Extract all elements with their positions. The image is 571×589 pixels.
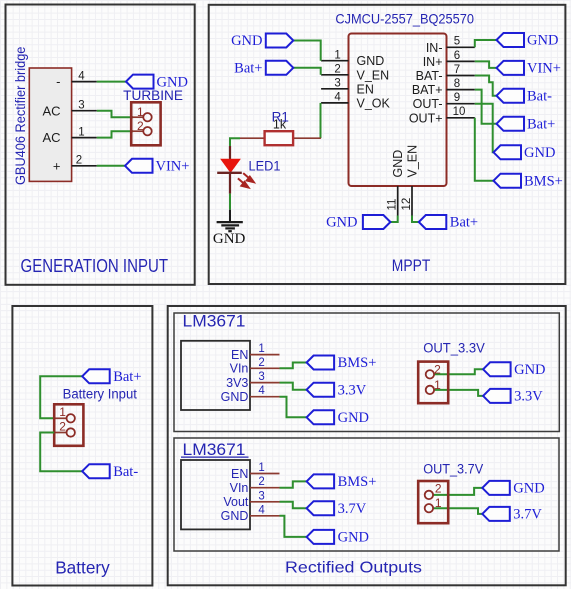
wire U2 GND to GND flag: [280, 397, 307, 418]
svg-text:7: 7: [454, 64, 460, 76]
LED1 cathode lead: [229, 173, 231, 194]
wire U1 pin12 to Bat+ flag: [412, 216, 419, 223]
svg-text:4: 4: [258, 504, 265, 516]
U2 pin 3 stub: [250, 382, 280, 384]
svg-text:BAT+: BAT+: [412, 83, 443, 97]
OUT_3.7V pin 2 circle: [425, 491, 433, 499]
svg-text:3: 3: [258, 490, 264, 502]
IC U1 CJMCU-2557_BQ25570 body: [349, 34, 447, 187]
U1 pin 6 stub: [447, 60, 475, 62]
svg-text:AC: AC: [42, 130, 60, 145]
rectifier bridge B1 GBU406 body: [29, 68, 71, 181]
U1 pin 11 stub: [397, 186, 399, 216]
net flag Bat- (battery): [82, 464, 110, 478]
svg-text:Bat-: Bat-: [527, 88, 552, 104]
U1 pin 12 stub: [411, 186, 413, 216]
svg-text:1: 1: [334, 49, 340, 61]
wire U2 VIn to BMS+ flag: [280, 363, 307, 369]
svg-text:4: 4: [334, 92, 341, 104]
wire pin4 to GND flag: [97, 81, 126, 83]
net flag GND (generation): [126, 75, 154, 89]
net flag GND (OUT_3.3V): [483, 362, 511, 376]
U3 pin 1 stub: [250, 473, 280, 475]
resistor R1 body: [265, 131, 294, 145]
svg-text:10: 10: [453, 106, 466, 118]
svg-text:V_EN: V_EN: [357, 68, 390, 82]
svg-text:Bat+: Bat+: [450, 215, 478, 231]
svg-text:GBU406 Rectifier bridge: GBU406 Rectifier bridge: [13, 47, 28, 185]
net flag VIN+ (IN+): [497, 61, 525, 75]
svg-text:3: 3: [334, 78, 340, 90]
GBU406 pin 4 (-) stub: [72, 81, 97, 83]
svg-text:GND: GND: [231, 33, 262, 49]
svg-text:Battery: Battery: [55, 558, 110, 578]
svg-text:MPPT: MPPT: [392, 257, 431, 275]
svg-text:2: 2: [137, 119, 144, 133]
section frame Battery: [12, 306, 152, 586]
net flag Bat+ (U1 pin2): [266, 61, 294, 75]
svg-text:V_EN: V_EN: [405, 145, 419, 178]
svg-text:Rectified Outputs: Rectified Outputs: [285, 559, 422, 576]
svg-text:VIN+: VIN+: [156, 159, 190, 175]
net flag Bat+ (pin12): [419, 215, 447, 229]
wire U1 pin8 to Bat+ flag: [475, 90, 497, 124]
svg-text:GND: GND: [326, 215, 357, 231]
net flag GND (OUT_3.7V): [482, 481, 510, 495]
wire U1 pin7 to Bat- flag: [475, 76, 497, 96]
svg-text:3.7V: 3.7V: [513, 507, 542, 523]
svg-text:IN-: IN-: [426, 41, 443, 55]
wire Bat+ flag to U1 pin2: [293, 68, 320, 75]
svg-text:OUT-: OUT-: [413, 97, 443, 111]
svg-text:GND: GND: [391, 150, 405, 178]
connector TURBINE pin 2 circle: [143, 127, 151, 135]
net flag 3.3V (OUT_3.3V): [483, 389, 511, 403]
net flag 3.7V (U3): [307, 501, 335, 515]
svg-text:BAT-: BAT-: [416, 69, 443, 83]
LED1 light arrow 2: [238, 178, 249, 187]
U1 pin 5 stub: [447, 46, 475, 48]
svg-text:VIN+: VIN+: [527, 61, 561, 77]
net flag VIN+ (generation): [125, 159, 153, 173]
wire OUT_3.7V pin2 to GND flag: [433, 488, 482, 495]
GBU406 pin 3 (AC) stub: [72, 110, 97, 112]
svg-text:IN+: IN+: [423, 55, 443, 69]
svg-text:2: 2: [434, 363, 441, 377]
svg-text:3: 3: [78, 99, 84, 111]
wire U2 3V3 to 3.3V flag: [280, 383, 307, 390]
svg-text:CJMCU-2557_BQ25570: CJMCU-2557_BQ25570: [335, 10, 474, 26]
U3 pin 3 stub: [250, 501, 280, 503]
svg-text:GND: GND: [213, 231, 246, 247]
svg-text:Bat+: Bat+: [113, 369, 141, 385]
wire U1 pin9 to GND flag: [475, 104, 494, 153]
svg-text:VIn: VIn: [230, 481, 249, 495]
LED1 cathode bar: [217, 172, 242, 174]
battery connector pin 2 circle: [67, 428, 75, 436]
svg-text:Battery Input: Battery Input: [63, 387, 138, 402]
OUT_3.3V pin 2 circle: [426, 370, 434, 378]
connector TURBINE pin line 2: [131, 130, 143, 132]
sub-frame LM3671 regulator 3.3V: [174, 313, 559, 432]
svg-text:OUT_3.3V: OUT_3.3V: [423, 341, 485, 356]
svg-text:1: 1: [435, 496, 442, 510]
wire U3 GND to GND flag: [280, 516, 307, 537]
GBU406 pin 1 (AC) stub: [72, 137, 97, 139]
wire U1 pin5 to GND flag: [475, 40, 497, 47]
svg-text:1: 1: [434, 378, 441, 392]
svg-text:2: 2: [59, 420, 66, 434]
net flag Bat+ (BAT+): [497, 117, 525, 131]
svg-text:EN: EN: [231, 467, 248, 481]
svg-text:3: 3: [258, 371, 264, 383]
net flag 3.3V (U2): [307, 383, 335, 397]
U1 pin 10 stub: [447, 117, 475, 119]
section frame MPPT: [209, 5, 566, 284]
svg-text:2: 2: [76, 155, 82, 167]
section frame GENERATION INPUT: [6, 5, 195, 285]
U1 pin 9 stub: [447, 103, 475, 105]
U3 pin 2 stub: [250, 487, 280, 489]
U2 pin 1 stub: [250, 354, 280, 356]
svg-text:Bat-: Bat-: [113, 464, 138, 480]
U2 pin 4 stub: [250, 396, 280, 398]
resistor R1 left lead: [240, 137, 265, 139]
svg-text:1: 1: [78, 126, 84, 138]
wire pin3 to TURBINE pin1: [97, 111, 133, 118]
svg-text:LED1: LED1: [249, 159, 281, 174]
svg-text:Bat+: Bat+: [234, 60, 262, 76]
wire LED1 to ground: [229, 194, 231, 210]
section frame Rectified Outputs: [168, 306, 566, 585]
wire R1 to LED1: [230, 138, 240, 146]
battery connector pin line 2: [54, 432, 66, 434]
svg-text:8: 8: [454, 78, 460, 90]
OUT_3.7V pin 1 circle: [425, 504, 433, 512]
net flag GND (OUT-): [494, 145, 522, 159]
svg-text:GND: GND: [514, 362, 545, 378]
ground symbol stem: [229, 210, 231, 222]
OUT_3.3V pin 1 circle: [426, 386, 434, 394]
svg-text:GND: GND: [513, 481, 544, 497]
net flag GND (U2): [307, 410, 335, 424]
net flag GND (pin11): [363, 215, 391, 229]
svg-text:6: 6: [454, 50, 460, 62]
ground symbol bars: [217, 222, 243, 231]
wire pin2 to VIN+ flag: [97, 165, 125, 167]
svg-text:2: 2: [258, 476, 264, 488]
connector Battery Input body: [54, 404, 83, 446]
svg-text:GND: GND: [357, 54, 385, 68]
svg-text:1: 1: [258, 462, 264, 474]
svg-text:11: 11: [387, 199, 399, 211]
sub-frame LM3671 regulator 3.7V: [174, 438, 559, 551]
wire Bat+ flag to battery connector pin1: [40, 376, 82, 418]
connector TURBINE pin line 1: [131, 116, 143, 118]
svg-text:5: 5: [454, 36, 460, 48]
U1 pin 8 stub: [447, 89, 475, 91]
svg-text:GND: GND: [221, 390, 249, 404]
svg-text:3.3V: 3.3V: [514, 389, 543, 405]
svg-text:GND: GND: [338, 410, 369, 426]
connector TURBINE body: [131, 102, 160, 145]
wire U1 pin6 to VIN+ flag: [475, 61, 497, 68]
wire battery connector pin2 to Bat- flag: [40, 433, 82, 472]
net flag GND (IN-): [497, 33, 525, 47]
svg-text:4: 4: [78, 70, 85, 82]
svg-text:-: -: [56, 74, 60, 89]
wire U1 pin11 to GND flag: [390, 216, 397, 223]
wire OUT_3.3V pin2 to GND flag: [435, 369, 484, 374]
svg-text:GND: GND: [527, 33, 558, 49]
connector TURBINE pin 1 circle: [143, 113, 151, 121]
U1 pin 3 stub: [321, 88, 348, 90]
net flag 3.7V (OUT_3.7V): [482, 507, 510, 521]
svg-text:EN: EN: [231, 348, 248, 362]
LED1 anode lead: [229, 146, 231, 160]
net flag BMS+ (U2): [307, 356, 335, 370]
svg-text:1: 1: [59, 405, 66, 419]
wire OUT_3.3V pin1 to 3.3V flag: [435, 390, 484, 396]
svg-text:GND: GND: [338, 530, 369, 546]
svg-text:1k: 1k: [273, 118, 287, 132]
net flag GND (U1 pin1): [266, 34, 294, 48]
svg-text:2: 2: [435, 482, 442, 496]
svg-text:GND: GND: [221, 509, 249, 523]
battery connector pin 1 circle: [67, 414, 75, 422]
wire U3 VIn to BMS+ flag: [280, 481, 307, 487]
net flag GND (U3): [307, 530, 335, 544]
svg-text:VIn: VIn: [230, 362, 249, 376]
GBU406 pin 2 (+) stub: [72, 165, 97, 167]
svg-text:OUT_3.7V: OUT_3.7V: [423, 461, 483, 476]
svg-text:1: 1: [137, 105, 144, 119]
connector OUT_3.3V body: [418, 362, 448, 404]
svg-text:V_OK: V_OK: [357, 96, 391, 110]
LED1 light arrow 1: [243, 173, 254, 182]
svg-text:GND: GND: [524, 145, 555, 161]
wire GND flag to U1 pin1: [293, 41, 320, 61]
svg-text:3V3: 3V3: [226, 376, 248, 390]
wire OUT_3.7V pin1 to 3.7V flag: [433, 508, 482, 514]
svg-text:BMS+: BMS+: [338, 355, 377, 371]
svg-text:OUT+: OUT+: [409, 111, 443, 125]
LED1 triangle: [221, 159, 240, 172]
svg-text:9: 9: [454, 92, 460, 104]
svg-text:GENERATION INPUT: GENERATION INPUT: [21, 255, 169, 276]
resistor R1 right lead: [293, 137, 321, 139]
wire U1 pin10 to BMS+ flag: [475, 118, 494, 181]
svg-text:AC: AC: [42, 103, 60, 118]
net flag Bat+ (battery): [82, 369, 110, 383]
svg-text:EN: EN: [357, 82, 374, 96]
battery connector pin line 1: [54, 417, 66, 419]
svg-text:12: 12: [401, 198, 413, 211]
svg-text:Bat+: Bat+: [527, 117, 555, 133]
U1 pin 1 stub: [321, 60, 348, 62]
svg-text:1: 1: [258, 343, 264, 355]
svg-text:2: 2: [258, 357, 264, 369]
wire U3 Vout to 3.7V flag: [280, 502, 307, 508]
svg-text:3.7V: 3.7V: [338, 501, 367, 517]
svg-text:BMS+: BMS+: [524, 173, 563, 189]
net flag BMS+ (OUT+): [494, 174, 522, 188]
U1 pin 4 stub: [321, 102, 348, 104]
U2 pin 2 stub: [250, 367, 280, 369]
U1 pin 2 stub: [321, 74, 348, 76]
net flag BMS+ (U3): [307, 474, 335, 488]
connector OUT_3.7V body: [418, 481, 448, 523]
wire U1 pin4 to R1: [320, 103, 322, 138]
svg-text:BMS+: BMS+: [338, 474, 377, 490]
svg-text:+: +: [53, 158, 61, 173]
U3 pin 4 stub: [250, 515, 280, 517]
net flag Bat- (BAT-): [497, 89, 525, 103]
svg-text:LM3671: LM3671: [183, 313, 246, 331]
svg-text:3.3V: 3.3V: [338, 382, 367, 398]
IC U2 LM3671 body: [181, 341, 250, 410]
underline LM3671 (regulator 2): [181, 456, 249, 458]
svg-text:TURBINE: TURBINE: [123, 88, 183, 103]
wire pin1 to TURBINE pin2: [97, 131, 133, 137]
U1 pin 7 stub: [447, 75, 475, 77]
svg-text:2: 2: [334, 64, 340, 76]
svg-text:Vout: Vout: [223, 495, 249, 509]
IC U3 LM3671 body: [181, 460, 250, 529]
svg-text:LM3671: LM3671: [183, 441, 246, 459]
svg-text:4: 4: [258, 385, 265, 397]
